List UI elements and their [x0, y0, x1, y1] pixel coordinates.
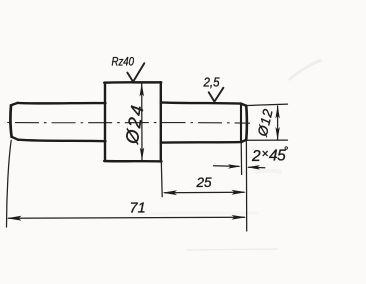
svg-text:Ø12: Ø12 — [255, 107, 276, 139]
svg-text:71: 71 — [130, 201, 146, 217]
svg-text:×: × — [262, 147, 269, 161]
svg-text:Ø24: Ø24 — [122, 102, 148, 146]
svg-text:25: 25 — [196, 175, 213, 190]
svg-text:2: 2 — [251, 148, 261, 165]
svg-text:Rz40: Rz40 — [112, 55, 135, 69]
svg-text:2,5: 2,5 — [203, 76, 220, 90]
svg-text:°: ° — [284, 146, 289, 158]
